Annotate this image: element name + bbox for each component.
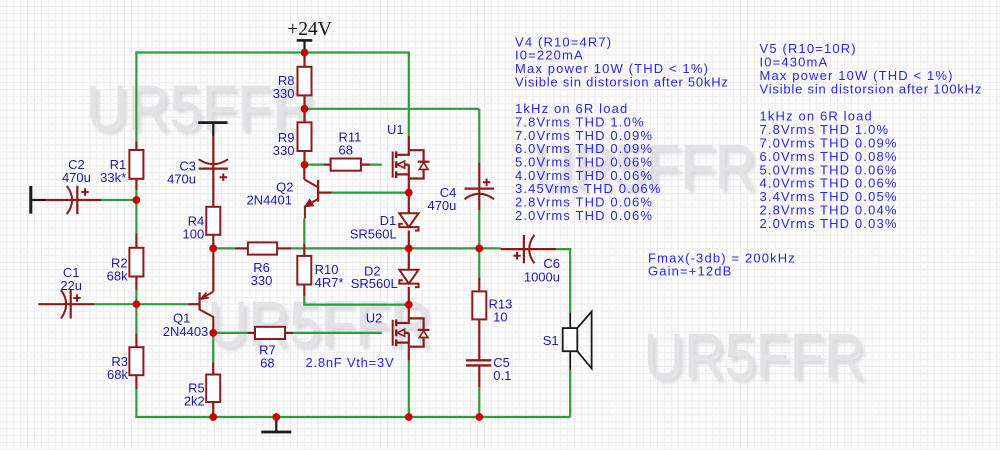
wire bottom rail [135, 416, 570, 418]
resistor R6 [235, 247, 248, 249]
svg-text:Visible sin distorsion after 5: Visible sin distorsion after 50kHz [515, 74, 729, 89]
node ground sym node [272, 413, 280, 421]
svg-text:1000u: 1000u [524, 269, 560, 284]
node C2-R1-R2 node [133, 196, 141, 204]
resistor R13 [478, 277, 480, 291]
svg-text:U2: U2 [366, 310, 383, 325]
resistor R10 [303, 244, 305, 256]
transistor U1 N-MOSFET with body diode [392, 152, 394, 178]
node R8-R9 node [301, 105, 309, 113]
node C5 ground node [475, 413, 483, 421]
ground symbol bottom [275, 417, 277, 431]
svg-text:Gain=+12dB: Gain=+12dB [648, 264, 733, 279]
capacitor C1 [38, 303, 94, 305]
ground terminal at C2 [29, 186, 32, 214]
svg-text:330: 330 [273, 86, 295, 101]
node C4-R13 output node [475, 245, 483, 253]
svg-text:330: 330 [273, 143, 295, 158]
node Q1c-R5-R7 node [209, 329, 217, 337]
node D2-U2 drain node [405, 301, 413, 309]
svg-text:UR5FFR: UR5FFR [644, 321, 865, 392]
svg-text:10: 10 [493, 310, 507, 325]
node C1-R2-R3-Q1b node [133, 300, 141, 308]
node R5 ground node [209, 413, 217, 421]
wire +24V top rail [135, 51, 409, 53]
wire bus R2-R3 segment [135, 290, 137, 334]
capacitor C5 [478, 358, 480, 361]
wire C1 to bus [94, 303, 136, 305]
node R4-R6-Q1e node [209, 245, 217, 253]
svg-text:470u: 470u [427, 198, 456, 213]
wire output rail R4-R6 [213, 247, 235, 249]
svg-text:SR560L: SR560L [350, 227, 397, 242]
node U1 source node [405, 189, 413, 197]
wire output rail R6 to C6 [291, 247, 501, 249]
svg-text:2.0Vrms THD 0.03%: 2.0Vrms THD 0.03% [760, 216, 898, 231]
node R8-R9 junction line to C4 [305, 108, 480, 110]
svg-text:68k: 68k [107, 268, 128, 283]
wire Q2 emitter segment [303, 219, 305, 244]
svg-text:470u: 470u [167, 171, 196, 186]
resistor R1 [135, 141, 137, 150]
svg-text:100: 100 [182, 227, 204, 242]
wire C2 to bus [101, 199, 136, 201]
wire R11 row from node [305, 164, 325, 166]
wire left supply bus upper [135, 51, 137, 141]
svg-text:SR560L: SR560L [351, 276, 398, 291]
svg-text:2N4401: 2N4401 [246, 193, 292, 208]
svg-text:Visible sin distorsion after 1: Visible sin distorsion after 100kHz [760, 82, 983, 97]
resistor R4 [206, 207, 220, 235]
wire U2 source to bottom rail [408, 361, 410, 417]
wire output node down to R13 [478, 248, 480, 277]
wire R7 row from Q1 collector node [213, 332, 247, 334]
wire R11 to U1 gate [370, 164, 382, 166]
diode D1 SR560L [408, 193, 410, 214]
svg-text:22u: 22u [60, 278, 82, 293]
speaker S1 [569, 312, 571, 328]
resistor R3 [135, 333, 137, 347]
svg-text:68k: 68k [107, 367, 128, 382]
transistor Q1 2N4403 [189, 303, 199, 305]
svg-text:2.0Vrms THD 0.06%: 2.0Vrms THD 0.06% [515, 208, 653, 223]
wire Q1 collector node down to R5 [212, 333, 214, 363]
svg-text:4R7*: 4R7* [315, 275, 344, 290]
svg-text:33k*: 33k* [100, 170, 126, 185]
resistor R9 [303, 109, 305, 123]
wire R10 bottom corner [304, 296, 409, 304]
wire speaker bottom to rail [569, 370, 571, 417]
svg-text:+24V: +24V [287, 19, 332, 40]
capacitor C2 [46, 199, 102, 201]
capacitor C3 [212, 137, 214, 207]
wire Q1 base [136, 303, 188, 305]
svg-text:2k2: 2k2 [184, 394, 205, 409]
capacitor C4 [478, 163, 480, 210]
node +24V node [301, 49, 309, 57]
wire bus R1-R2 segment [135, 190, 137, 233]
wire top rail drop to U1 drain [408, 51, 410, 136]
wire Q2 base to U1 source node [332, 192, 409, 194]
svg-text:0.1: 0.1 [493, 368, 511, 383]
svg-text:330: 330 [251, 273, 273, 288]
svg-text:U1: U1 [387, 122, 404, 137]
resistor R11 [324, 164, 331, 166]
transistor U2 N-MOSFET with body diode [392, 320, 394, 346]
wire C4 bottom to output rail [478, 210, 480, 248]
wire bus R3 to bottom rail [135, 389, 137, 417]
svg-text:2N4403: 2N4403 [163, 324, 209, 339]
resistor R2 [135, 234, 137, 248]
capacitor C6 [501, 248, 557, 250]
node U2 source ground node [405, 413, 413, 421]
svg-text:470u: 470u [62, 170, 91, 185]
wire C5 bottom to rail [478, 387, 480, 417]
node D1-D2 output node [405, 245, 413, 253]
wire C4 top drop [478, 109, 480, 163]
wire C6 to speaker corner [556, 249, 570, 312]
diode D2 SR560L [408, 248, 410, 269]
svg-text:2.8nF Vth=3V: 2.8nF Vth=3V [306, 355, 395, 370]
svg-text:S1: S1 [543, 333, 559, 348]
resistor R8 [303, 53, 305, 67]
ground terminal above C3 [198, 121, 227, 124]
svg-text:68: 68 [260, 356, 274, 371]
resistor R7 [248, 332, 255, 334]
svg-text:68: 68 [339, 142, 353, 157]
power symbol +24V [297, 39, 313, 42]
wire R7 to U2 gate [293, 332, 382, 334]
node R9-R11-Q2 node [301, 161, 309, 169]
transistor Q2 2N4401 [303, 165, 305, 180]
resistor R5 [212, 363, 214, 375]
